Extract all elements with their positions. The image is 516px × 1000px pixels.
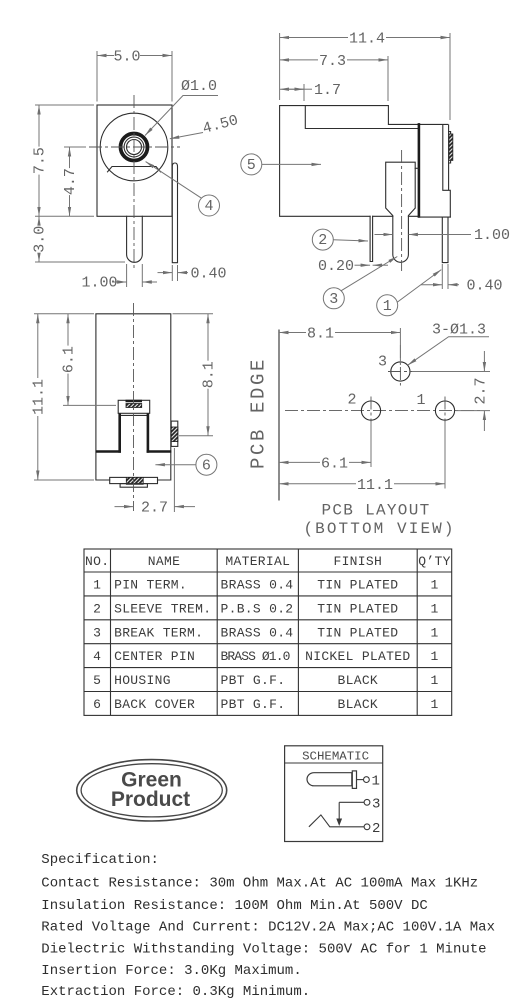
svg-text:2.7: 2.7 bbox=[473, 377, 490, 404]
center pin (front view, below body) bbox=[127, 216, 143, 262]
svg-text:6.1: 6.1 bbox=[61, 346, 78, 373]
balloon 4 bbox=[199, 195, 220, 216]
svg-text:TIN PLATED: TIN PLATED bbox=[317, 601, 398, 616]
dim 4.7 bbox=[64, 146, 86, 148]
svg-text:3: 3 bbox=[378, 354, 387, 371]
svg-text:PBT G.F.: PBT G.F. bbox=[221, 673, 286, 688]
back body rect bbox=[96, 314, 171, 480]
center pin symbol bbox=[307, 773, 352, 786]
dim 1.00 bbox=[127, 264, 143, 287]
svg-text:4: 4 bbox=[204, 198, 213, 215]
table rows bbox=[93, 578, 438, 713]
center pin notch bbox=[415, 167, 419, 169]
svg-text:CENTER PIN: CENTER PIN bbox=[114, 649, 195, 664]
svg-text:BRASS 0.4: BRASS 0.4 bbox=[221, 578, 294, 593]
center pin wide body bbox=[386, 162, 416, 262]
svg-text:(BOTTOM VIEW): (BOTTOM VIEW) bbox=[303, 520, 455, 538]
svg-text:11.1: 11.1 bbox=[357, 477, 393, 494]
svg-text:TIN PLATED: TIN PLATED bbox=[317, 578, 398, 593]
svg-text:Rated Voltage And Current: DC1: Rated Voltage And Current: DC12V.2A Max;… bbox=[41, 920, 495, 936]
housing right edge bold bbox=[418, 124, 421, 216]
dim 2.7 pcb bbox=[412, 372, 490, 411]
svg-text:NO.: NO. bbox=[85, 554, 109, 569]
svg-text:5.0: 5.0 bbox=[113, 49, 140, 66]
center pin circle d1.0 bbox=[127, 140, 142, 155]
svg-text:NAME: NAME bbox=[148, 554, 180, 569]
svg-text:BRASS 0.4: BRASS 0.4 bbox=[221, 625, 294, 640]
barrel outer circle d4.5 bbox=[100, 113, 168, 181]
bottom contact hatch bbox=[126, 477, 143, 484]
side tab pin (front view) bbox=[172, 163, 177, 263]
svg-text:1: 1 bbox=[372, 774, 380, 790]
dim 5.0 bbox=[97, 51, 172, 102]
PCB edge line bbox=[278, 330, 280, 500]
svg-text:3: 3 bbox=[93, 625, 101, 640]
logo inner ellipse bbox=[81, 764, 222, 817]
svg-text:BRASS Ø1.0: BRASS Ø1.0 bbox=[221, 649, 290, 664]
dim 6.1 pcb bbox=[370, 422, 372, 467]
svg-text:1: 1 bbox=[430, 673, 438, 688]
switch arrow bbox=[338, 802, 340, 819]
vertical centerline bbox=[133, 95, 135, 271]
svg-text:3: 3 bbox=[329, 291, 338, 308]
svg-text:Specification:: Specification: bbox=[41, 852, 159, 868]
dim 11.1 pcb bbox=[444, 422, 446, 489]
svg-text:PIN TERM.: PIN TERM. bbox=[114, 578, 187, 593]
svg-text:SCHEMATIC: SCHEMATIC bbox=[302, 749, 369, 763]
dashed centerline through holes 1,2 bbox=[285, 410, 481, 412]
dim 11.4 bbox=[280, 33, 450, 120]
logo outer ellipse bbox=[77, 760, 227, 821]
svg-text:3.0: 3.0 bbox=[32, 226, 49, 253]
svg-text:11.4: 11.4 bbox=[349, 31, 385, 48]
table header text bbox=[85, 554, 451, 569]
side centerline bbox=[401, 150, 403, 271]
svg-text:2: 2 bbox=[372, 821, 380, 837]
dim 3.0 bbox=[35, 261, 125, 263]
hole 2 bbox=[361, 401, 380, 420]
svg-text:1.7: 1.7 bbox=[314, 82, 341, 99]
svg-text:PBT G.F.: PBT G.F. bbox=[221, 697, 286, 712]
back cover plate bbox=[443, 125, 451, 217]
svg-text:7.5: 7.5 bbox=[32, 147, 49, 174]
inner chord tongue bbox=[108, 167, 161, 172]
dim 7.5 bbox=[35, 105, 94, 216]
svg-text:HOUSING: HOUSING bbox=[114, 673, 171, 688]
bold contact ring bbox=[121, 134, 148, 161]
T-head top bold segment bbox=[126, 400, 143, 402]
right clip hatch bbox=[171, 427, 178, 442]
bottom contact plate bbox=[110, 477, 158, 483]
svg-text:0.40: 0.40 bbox=[191, 266, 227, 283]
balloon 1 bbox=[377, 295, 398, 316]
svg-text:Dielectric Withstanding Voltag: Dielectric Withstanding Voltage: 500V AC… bbox=[41, 941, 486, 957]
dim 1.7 bbox=[303, 84, 305, 101]
crossbar contact bbox=[352, 771, 356, 789]
svg-text:1: 1 bbox=[430, 697, 438, 712]
pin 1 bbox=[442, 217, 448, 263]
svg-text:BREAK TERM.: BREAK TERM. bbox=[114, 625, 203, 640]
slot bold verticals bbox=[120, 415, 148, 452]
svg-text:TIN PLATED: TIN PLATED bbox=[317, 625, 398, 640]
slot bottom bold steps bbox=[97, 450, 170, 453]
svg-text:Insertion Force: 3.0Kg Maximum: Insertion Force: 3.0Kg Maximum. bbox=[41, 963, 301, 979]
horizontal centerline bbox=[89, 146, 180, 148]
dim 0.40 bbox=[442, 264, 448, 289]
dim 2.7 bottom bbox=[173, 448, 175, 512]
svg-text:Ø1.0: Ø1.0 bbox=[181, 78, 217, 95]
svg-text:1: 1 bbox=[430, 578, 438, 593]
svg-text:2: 2 bbox=[93, 601, 101, 616]
dim 0.20 bbox=[355, 264, 371, 266]
dim 0.40 tab bbox=[172, 265, 177, 281]
T-head box bbox=[118, 400, 150, 413]
inner sleeve circle bbox=[124, 137, 144, 157]
back bottom edge bbox=[419, 216, 450, 218]
svg-text:1.00: 1.00 bbox=[474, 227, 510, 244]
svg-text:4.50: 4.50 bbox=[201, 112, 240, 138]
svg-text:3: 3 bbox=[372, 796, 380, 812]
balloon 5 bbox=[241, 154, 262, 175]
hole 3 bbox=[391, 362, 410, 381]
hole 1 bbox=[435, 401, 454, 420]
dim 6.1 bbox=[63, 404, 116, 406]
svg-text:MATERIAL: MATERIAL bbox=[225, 554, 290, 569]
svg-text:1: 1 bbox=[430, 601, 438, 616]
back view centerline bbox=[133, 303, 135, 511]
spring contact and terminal 2 bbox=[309, 815, 364, 827]
svg-text:Product: Product bbox=[111, 788, 190, 811]
terminal 3 bbox=[339, 801, 364, 803]
svg-text:PCB LAYOUT: PCB LAYOUT bbox=[321, 502, 430, 520]
svg-text:2: 2 bbox=[318, 232, 327, 249]
terminal 1 bbox=[357, 779, 364, 781]
svg-text:4.7: 4.7 bbox=[62, 168, 79, 195]
svg-text:NICKEL PLATED: NICKEL PLATED bbox=[305, 649, 410, 664]
svg-text:5: 5 bbox=[247, 157, 256, 174]
svg-text:4: 4 bbox=[93, 649, 101, 664]
dim 8.1 right bbox=[173, 314, 214, 436]
svg-text:Contact Resistance: 30m Ohm Ma: Contact Resistance: 30m Ohm Max.At AC 10… bbox=[41, 876, 478, 892]
dim 11.1 bbox=[34, 314, 94, 480]
svg-text:P.B.S 0.2: P.B.S 0.2 bbox=[221, 601, 294, 616]
housing outline side bbox=[280, 106, 448, 217]
dim 7.3 bbox=[387, 56, 389, 101]
svg-text:2.7: 2.7 bbox=[141, 500, 168, 517]
balloon 3 bbox=[323, 288, 344, 309]
svg-text:Extraction Force: 0.3Kg Minimu: Extraction Force: 0.3Kg Minimum. bbox=[41, 984, 310, 1000]
svg-text:1: 1 bbox=[93, 578, 101, 593]
svg-text:1: 1 bbox=[417, 392, 426, 409]
svg-text:5: 5 bbox=[93, 673, 101, 688]
right clip outline bbox=[171, 421, 178, 446]
svg-text:7.3: 7.3 bbox=[319, 53, 346, 70]
svg-text:BLACK: BLACK bbox=[338, 673, 379, 688]
balloon 6 bbox=[196, 454, 217, 475]
svg-text:BACK COVER: BACK COVER bbox=[114, 697, 195, 712]
T-head hatched contact bbox=[126, 404, 142, 408]
svg-text:1: 1 bbox=[430, 649, 438, 664]
svg-text:6: 6 bbox=[93, 697, 101, 712]
svg-text:6.1: 6.1 bbox=[321, 455, 348, 472]
svg-text:Insulation Resistance: 100M Oh: Insulation Resistance: 100M Ohm Min.At 5… bbox=[41, 898, 427, 914]
svg-text:1.00: 1.00 bbox=[81, 275, 117, 292]
svg-text:Q’TY: Q’TY bbox=[418, 554, 450, 569]
balloon 2 bbox=[312, 229, 333, 250]
schematic header line bbox=[285, 762, 383, 764]
clip end ticks bbox=[449, 132, 451, 163]
side clip hatched bbox=[449, 134, 453, 160]
svg-text:PCB EDGE: PCB EDGE bbox=[248, 357, 270, 469]
schematic frame bbox=[285, 746, 383, 842]
svg-text:FINISH: FINISH bbox=[333, 554, 382, 569]
svg-text:BLACK: BLACK bbox=[338, 697, 379, 712]
svg-text:1: 1 bbox=[383, 298, 392, 315]
svg-text:0.40: 0.40 bbox=[467, 278, 503, 295]
sleeve pin 2 bbox=[370, 216, 373, 261]
housing body front rect bbox=[97, 105, 172, 216]
svg-text:3-Ø1.3: 3-Ø1.3 bbox=[432, 322, 486, 339]
dim 8.1 pcb bbox=[399, 328, 401, 365]
svg-text:SLEEVE TREM.: SLEEVE TREM. bbox=[114, 601, 211, 616]
double line under T-head bbox=[120, 414, 148, 416]
table grid bbox=[84, 549, 452, 715]
bottom contact lower step bbox=[120, 484, 147, 488]
svg-text:8.1: 8.1 bbox=[307, 326, 334, 343]
svg-text:6: 6 bbox=[202, 457, 211, 474]
svg-text:0.20: 0.20 bbox=[318, 258, 354, 275]
dim 1.00 pin width bbox=[375, 234, 393, 236]
svg-text:1: 1 bbox=[430, 625, 438, 640]
svg-text:8.1: 8.1 bbox=[201, 361, 218, 388]
svg-text:11.1: 11.1 bbox=[30, 379, 47, 415]
inner top step bbox=[305, 106, 419, 129]
svg-text:2: 2 bbox=[348, 392, 357, 409]
